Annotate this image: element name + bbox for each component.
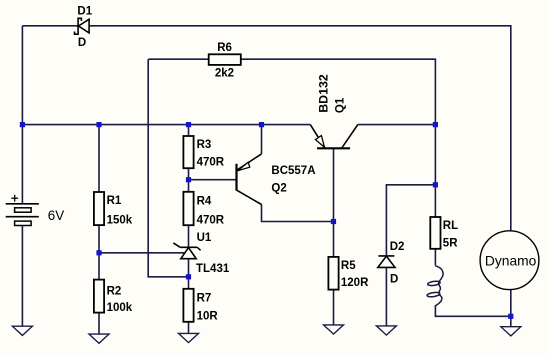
wire R7 bottom lead — [188, 322, 190, 334]
junction battery bus — [20, 122, 25, 127]
junction dynamo bottom — [508, 314, 513, 319]
wire R5 top lead — [333, 222, 335, 257]
resistor R3 — [183, 136, 193, 168]
wire top horizontal left of D1 — [22, 25, 77, 27]
wire main bus left of Q1 — [22, 124, 310, 126]
svg-text:R5: R5 — [341, 260, 356, 272]
battery plus sign — [11, 195, 18, 202]
ground dynamo — [501, 327, 521, 336]
wire R3 top lead — [188, 125, 190, 136]
svg-text:2k2: 2k2 — [215, 67, 234, 79]
junction Q1 base R5 — [331, 219, 336, 224]
svg-text:D1: D1 — [77, 5, 92, 17]
resistor R7 — [183, 289, 193, 322]
svg-text:470R: 470R — [197, 214, 225, 226]
TL431 U1 — [173, 243, 200, 259]
svg-text:BC557A: BC557A — [271, 165, 315, 177]
ground R2 — [89, 334, 109, 343]
resistor R5 — [328, 257, 338, 290]
wire top-left vertical battery column — [21, 26, 23, 204]
svg-text:R3: R3 — [197, 139, 212, 151]
svg-text:100k: 100k — [107, 302, 133, 314]
wire Q1 base vertical — [333, 148, 335, 221]
svg-text:R1: R1 — [107, 195, 122, 207]
wire — [22, 26, 510, 334]
svg-text:6V: 6V — [48, 208, 64, 223]
wire R3 bottom to R4 top — [188, 168, 190, 192]
wire R1 bottom to divider junction — [98, 225, 100, 280]
wire divider to TL431 ref — [99, 252, 184, 254]
svg-text:10R: 10R — [197, 311, 219, 323]
svg-text:D2: D2 — [390, 241, 405, 253]
svg-text:U1: U1 — [197, 232, 212, 244]
wire R6 net left vertical to TL431 — [148, 59, 188, 277]
svg-text:BD132: BD132 — [316, 74, 330, 113]
junction R3 R4 Q2 base — [186, 177, 191, 182]
ground R7 — [179, 333, 199, 342]
transistor Q2 BC557A — [237, 154, 262, 205]
wire top horizontal right of D1 to dynamo — [89, 26, 511, 231]
wire R6 left horizontal — [148, 58, 209, 60]
resistor R1 — [94, 192, 104, 225]
svg-text:R6: R6 — [217, 42, 232, 54]
resistor R2 — [94, 280, 104, 313]
wire TL431 anode to junction and R7 top — [188, 259, 190, 289]
junction R3 bus — [186, 122, 191, 127]
svg-text:Q1: Q1 — [334, 97, 346, 113]
svg-text:RL: RL — [443, 220, 458, 232]
resistor R6 — [209, 54, 241, 65]
diode D1 — [75, 18, 90, 34]
ground battery — [12, 225, 32, 335]
wire R5 bottom lead — [333, 290, 335, 325]
resistor R4 — [183, 192, 193, 225]
diode D2 — [378, 256, 395, 268]
svg-text:150k: 150k — [107, 214, 133, 226]
svg-text:D: D — [78, 37, 86, 49]
wire D2 bottom lead — [385, 267, 387, 326]
wire R4 bottom to TL431 cathode — [188, 225, 190, 247]
svg-text:R2: R2 — [107, 285, 122, 297]
wire Q2 emitter vertical — [261, 125, 263, 154]
ground D2 — [376, 326, 396, 335]
wire R6 right horizontal and right column — [241, 59, 436, 217]
resistor RL — [430, 217, 440, 249]
junction D2 right column — [433, 182, 438, 187]
wire Q2 base — [189, 179, 237, 181]
svg-text:D: D — [390, 273, 398, 285]
svg-text:470R: 470R — [197, 157, 225, 169]
battery 6V — [6, 204, 39, 226]
wire R1 top lead — [98, 125, 100, 192]
wire D2 top net — [386, 185, 435, 256]
inductor coil — [427, 266, 443, 306]
svg-text:R7: R7 — [197, 292, 212, 304]
junction right column bus — [433, 122, 438, 127]
dynamo — [480, 231, 539, 290]
svg-text:120R: 120R — [341, 277, 369, 289]
junction divider R1 R2 — [96, 250, 101, 255]
junction Q2 emitter bus — [259, 122, 264, 127]
wire Q2 collector elbow to junction — [262, 205, 334, 222]
svg-text:Q2: Q2 — [271, 182, 286, 194]
svg-text:Dynamo: Dynamo — [485, 254, 537, 269]
transistor Q1 BD132 — [310, 125, 358, 149]
ground R5 — [324, 325, 344, 334]
svg-text:TL431: TL431 — [196, 263, 230, 275]
junction TL431 anode — [186, 274, 191, 279]
wire inductor bottom to dynamo bottom — [435, 305, 510, 316]
wire dynamo bottom lead — [510, 290, 512, 327]
wire main bus right of Q1 — [358, 124, 436, 126]
svg-text:5R: 5R — [443, 237, 458, 249]
wire R2 bottom lead — [98, 313, 100, 335]
svg-text:R4: R4 — [197, 196, 212, 208]
junction R1 bus — [96, 122, 101, 127]
wire RL bottom to inductor — [434, 249, 436, 266]
